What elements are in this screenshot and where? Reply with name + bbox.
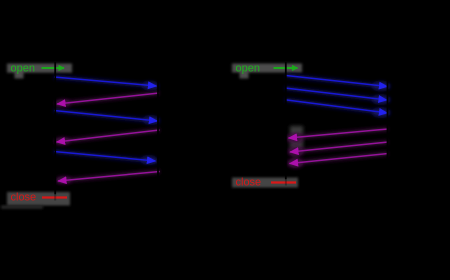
request arrow 2 (left) [54,111,158,122]
open leader arrow (left) [42,67,65,69]
artifact halo: right open label [232,64,302,79]
close leader line (right) [271,181,296,183]
head smear glows [55,82,391,185]
request arrow 1 (right) [286,76,388,87]
response arrow 2 (right) [290,142,388,152]
svg-text:open: open [11,62,35,74]
request arrow 2 (right) [285,88,387,100]
svg-text:close: close [11,192,37,204]
response arrow 2 (left) [57,130,160,142]
response arrow 3 (right) [290,154,389,164]
svg-text:getting 3 objects: getting 3 objects [60,21,141,33]
response arrow 1 (left) [57,93,159,104]
client lifeline (right) [285,62,287,180]
artifact halo: right response heads [290,126,303,150]
artifact halo: left close label [7,192,70,206]
request arrow 1 (left) [54,77,157,86]
server lifeline (right) [387,62,389,190]
server lifeline (left) [157,62,159,205]
lifeline notch over right close line [285,180,287,186]
svg-text:open: open [236,62,260,74]
svg-text:close: close [236,176,262,188]
lifeline notch over left close line [54,195,56,201]
client lifeline (left, crosses over green arrow) [54,62,56,195]
artifact halo: left open label [7,64,72,79]
close leader line (left) [42,196,67,198]
request arrow 3 (left) [54,152,156,162]
request arrow 3 (right) [285,100,388,113]
faint artifact dash below close (left) [1,206,43,209]
response arrow 3 (left) [58,172,160,182]
compression haze along arrows [54,76,389,182]
artifact halo: right close label [232,178,298,188]
open leader arrow (right) [274,67,298,69]
response arrow 1 (right) [289,129,389,138]
